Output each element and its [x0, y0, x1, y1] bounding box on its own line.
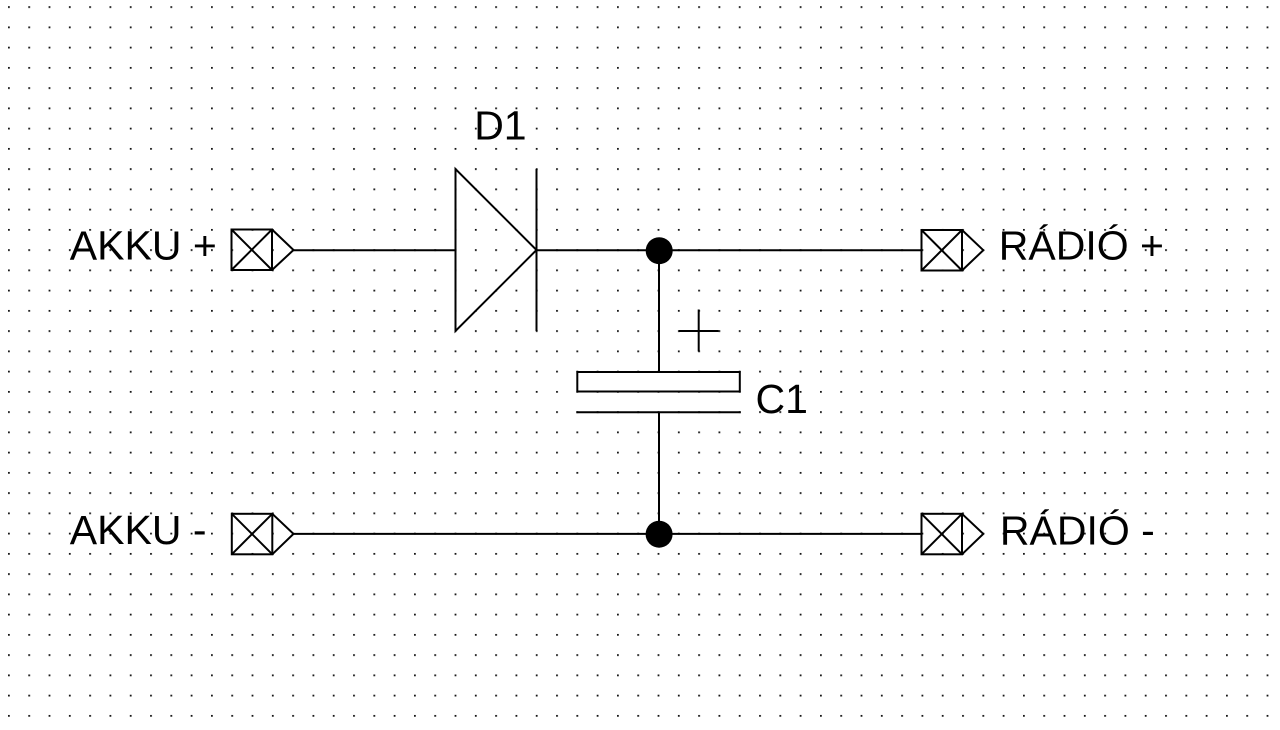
- svg-text:RÁDIÓ +: RÁDIÓ +: [999, 223, 1164, 269]
- connector AKKU -: [232, 514, 294, 555]
- diode D1: [456, 169, 537, 331]
- svg-text:AKKU -: AKKU -: [70, 507, 207, 553]
- connector AKKU +: [232, 230, 294, 271]
- wire junction to C1: [658, 250, 660, 372]
- wire AKKU+ to D1: [294, 249, 456, 251]
- svg-text:AKKU +: AKKU +: [70, 223, 217, 269]
- wire D1 to RADIO+: [537, 249, 922, 251]
- junction node top: [646, 237, 673, 264]
- svg-text:C1: C1: [756, 376, 808, 422]
- wire AKKU- to RADIO-: [294, 533, 922, 535]
- capacitor C1: [576, 310, 741, 413]
- svg-text:RÁDIÓ -: RÁDIÓ -: [1000, 507, 1155, 553]
- svg-text:D1: D1: [474, 102, 526, 148]
- wire C1 to junction bottom: [658, 412, 660, 534]
- connector RADIO -: [922, 514, 984, 555]
- junction node bottom: [646, 521, 673, 548]
- connector RADIO +: [922, 230, 984, 271]
